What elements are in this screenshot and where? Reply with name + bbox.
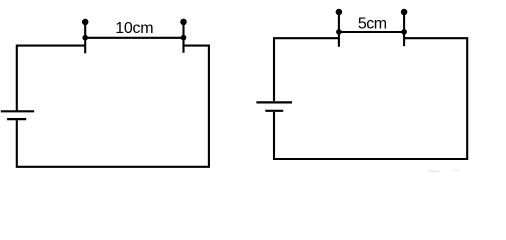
svg-text:5cm: 5cm bbox=[358, 16, 387, 33]
terminal post (right circuit, right) bbox=[403, 11, 405, 46]
faint watermark remnant right bbox=[453, 169, 460, 171]
node: top terminal dot (left circuit, right) bbox=[180, 19, 187, 26]
battery (left circuit) long plate bbox=[1, 110, 34, 112]
terminal post (left circuit, right) bbox=[182, 21, 184, 53]
node: junction dot (right circuit, right) bbox=[401, 29, 407, 35]
wire: 5cm slide wire between junctions bbox=[339, 31, 404, 33]
wire: right circuit, left side + top-left segment bbox=[274, 38, 339, 101]
node: junction dot (left circuit, right) bbox=[181, 35, 187, 41]
wire: left circuit, bottom + right side + top-right segment bbox=[17, 46, 209, 167]
terminal post (left circuit, left) bbox=[84, 21, 86, 53]
wire: right circuit, bottom + right side + top-right segment bbox=[274, 38, 467, 159]
svg-text:10cm: 10cm bbox=[115, 20, 153, 37]
wire: left circuit, left side + top-left segment bbox=[17, 46, 85, 111]
terminal post (right circuit, left) bbox=[338, 11, 340, 47]
battery (left circuit) short plate bbox=[7, 118, 26, 120]
battery (right circuit) long plate bbox=[256, 101, 292, 103]
wire: 10cm slide wire between junctions bbox=[85, 37, 183, 39]
faint watermark remnant left bbox=[428, 170, 441, 173]
node: top terminal dot (right circuit, left) bbox=[336, 9, 343, 16]
node: top terminal dot (right circuit, right) bbox=[401, 9, 408, 16]
battery (right circuit) short plate bbox=[265, 110, 283, 112]
node: junction dot (left circuit, left) bbox=[82, 35, 88, 41]
node: junction dot (right circuit, left) bbox=[336, 29, 342, 35]
node: top terminal dot (left circuit, left) bbox=[82, 19, 89, 26]
